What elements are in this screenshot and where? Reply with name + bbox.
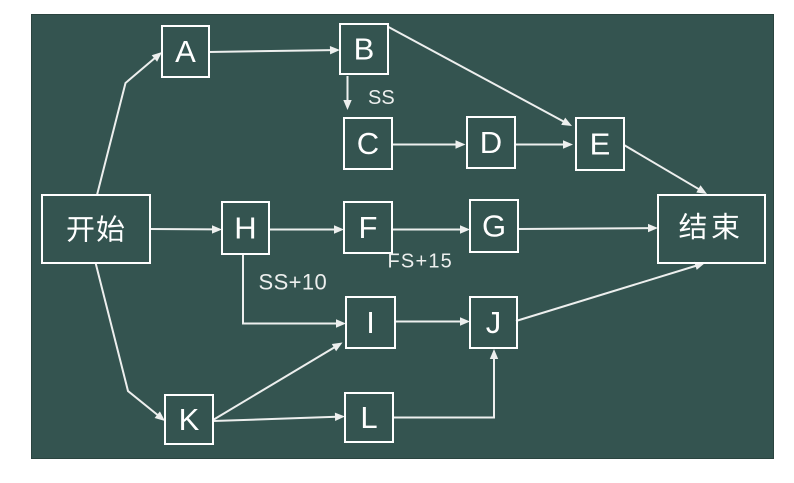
svg-text:I: I xyxy=(366,305,375,340)
svg-text:SS+10: SS+10 xyxy=(259,270,328,295)
svg-text:G: G xyxy=(482,209,506,244)
svg-text:K: K xyxy=(179,402,200,437)
svg-text:SS: SS xyxy=(368,87,395,109)
svg-text:A: A xyxy=(175,34,196,69)
svg-text:L: L xyxy=(360,400,377,435)
svg-text:C: C xyxy=(357,126,379,161)
svg-text:D: D xyxy=(480,125,502,160)
svg-text:B: B xyxy=(354,32,375,67)
svg-text:J: J xyxy=(486,305,502,340)
svg-text:E: E xyxy=(590,127,611,162)
svg-text:F: F xyxy=(359,210,378,245)
svg-text:FS+15: FS+15 xyxy=(388,251,453,273)
svg-text:H: H xyxy=(234,211,256,246)
